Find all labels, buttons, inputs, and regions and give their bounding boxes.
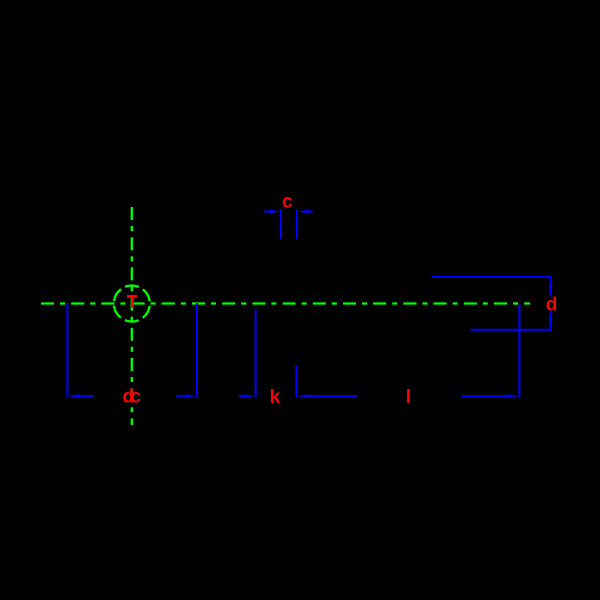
dimension d up arrow — [549, 277, 553, 288]
dimension d line upper segment — [550, 277, 552, 296]
dimension dc right arrow — [176, 395, 187, 397]
vertical centerline — [131, 207, 133, 425]
red T marker — [127, 295, 137, 308]
svg-text:c: c — [282, 191, 293, 212]
dimension d extension line bottom — [470, 329, 551, 331]
svg-text:l: l — [406, 387, 411, 408]
dimension l left arrow — [297, 394, 308, 398]
svg-text:k: k — [270, 387, 281, 408]
circle (pitch circle) — [114, 286, 150, 322]
dimension d extension line top — [431, 276, 551, 278]
dimension l right arrow — [462, 395, 509, 397]
dimension d down arrow — [549, 318, 553, 329]
dimension c left arrow — [264, 210, 271, 212]
horizontal centerline — [41, 302, 530, 304]
extension line l left — [295, 366, 297, 398]
svg-text:d: d — [546, 295, 558, 316]
svg-text:c: c — [130, 386, 141, 407]
dimension d line lower segment — [550, 311, 552, 330]
dimension dc left arrow — [68, 394, 79, 398]
extension line k right — [255, 309, 257, 397]
dimension k arrow — [239, 395, 246, 397]
extension line dc left — [66, 303, 68, 397]
extension line l right — [518, 304, 520, 397]
dimension c right arrow — [308, 210, 313, 212]
dimension c extension line right — [296, 210, 298, 239]
dimension c extension line left — [280, 210, 282, 239]
extension line dc right / k left — [196, 303, 198, 397]
